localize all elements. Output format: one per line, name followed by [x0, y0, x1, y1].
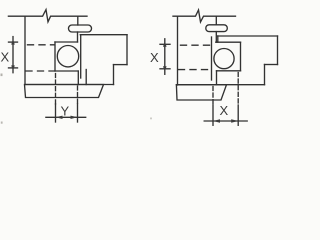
scanner speckle left border [1, 74, 3, 77]
right figure glass flange vertical [211, 37, 213, 80]
left figure channel lower right wall [77, 71, 79, 85]
right figure base plate trapezoid [176, 85, 226, 100]
left figure wall vertical [24, 16, 26, 84]
svg-text:X: X [220, 103, 229, 118]
right figure channel right wall [240, 42, 242, 71]
right figure X bottom dimension line [204, 120, 247, 122]
scanner speckle near right dim [150, 118, 152, 120]
left figure rivet head pill [69, 25, 92, 32]
left figure base plate trapezoid [25, 85, 104, 98]
right figure block notch horizontal [265, 64, 278, 66]
left figure block lower left vertical [85, 70, 87, 85]
left figure block notch horizontal [114, 64, 128, 66]
left figure rivet stem lower [77, 32, 79, 42]
right figure wall vertical [177, 16, 179, 85]
right figure X dimension bottom tick [160, 68, 170, 70]
left figure Y dimension right extension dashed [77, 86, 79, 104]
left figure X dimension bottom arrowhead [11, 65, 15, 71]
left figure block right edge [126, 35, 128, 65]
right figure block right edge [277, 36, 279, 65]
right figure roller circle [214, 49, 234, 69]
right figure X bottom dimension left arrowhead [213, 119, 220, 122]
left figure Y dimension right arrowhead [71, 116, 78, 119]
left figure centerline lower dash-dot [26, 70, 54, 72]
left figure Y dimension right extension solid [77, 104, 79, 122]
left figure X dimension top arrowhead [11, 39, 15, 45]
left figure Y dimension left extension dashed [55, 74, 57, 105]
right figure rail top line with break symbol [173, 10, 236, 22]
right figure X dimension top arrowhead [163, 41, 167, 47]
left figure channel left wall [54, 42, 56, 71]
left figure block notch vertical [113, 65, 115, 85]
left figure channel bottom [55, 70, 78, 72]
left figure rivet stem upper [77, 16, 79, 25]
left figure block bottom line [25, 84, 114, 86]
left figure X dimension line vertical [12, 37, 14, 73]
left figure centerline upper dash-dot [28, 44, 55, 46]
scanner speckle lower left border [1, 122, 3, 124]
right figure channel bottom [217, 70, 241, 72]
svg-text:X: X [150, 50, 159, 65]
left figure X dimension bottom tick [9, 67, 18, 69]
right figure centerline lower dash-dot [179, 69, 208, 71]
right figure channel lower left wall [216, 71, 218, 85]
right figure X bottom dimension right arrowhead [231, 119, 238, 122]
left figure channel top flange [55, 41, 78, 43]
right figure rivet head pill [206, 25, 228, 32]
right figure rivet stem upper [215, 16, 217, 25]
left figure Y dimension left arrowhead [56, 116, 63, 119]
left figure X dimension top tick [9, 41, 18, 43]
right figure X bottom dimension right extension solid [237, 105, 239, 125]
left figure Y dimension line [46, 116, 86, 118]
right figure block bottom line [176, 84, 264, 86]
right figure X dimension bottom arrowhead [163, 66, 167, 72]
left figure block left edge [80, 35, 82, 78]
left figure Y dimension left extension solid [55, 104, 57, 122]
right figure X bottom dimension left extension solid [212, 105, 214, 125]
right figure centerline upper dash-dot [181, 44, 210, 46]
right figure block top edge [218, 35, 278, 37]
svg-text:Y: Y [61, 104, 70, 119]
left figure roller circle [57, 46, 78, 67]
right figure channel top flange [216, 41, 241, 43]
left figure rail top line with break symbol [8, 10, 87, 22]
right figure X dimension line vertical [164, 39, 166, 75]
right figure X bottom dimension right extension dashed [237, 73, 239, 106]
svg-text:X: X [1, 50, 10, 65]
right figure rivet stem lower [215, 32, 217, 43]
right figure block notch vertical [264, 65, 266, 85]
right figure X bottom dimension left extension dashed [212, 87, 214, 106]
right figure X dimension top tick [160, 43, 170, 45]
left figure block top edge [80, 34, 127, 36]
right figure block left edge upper [217, 36, 219, 42]
